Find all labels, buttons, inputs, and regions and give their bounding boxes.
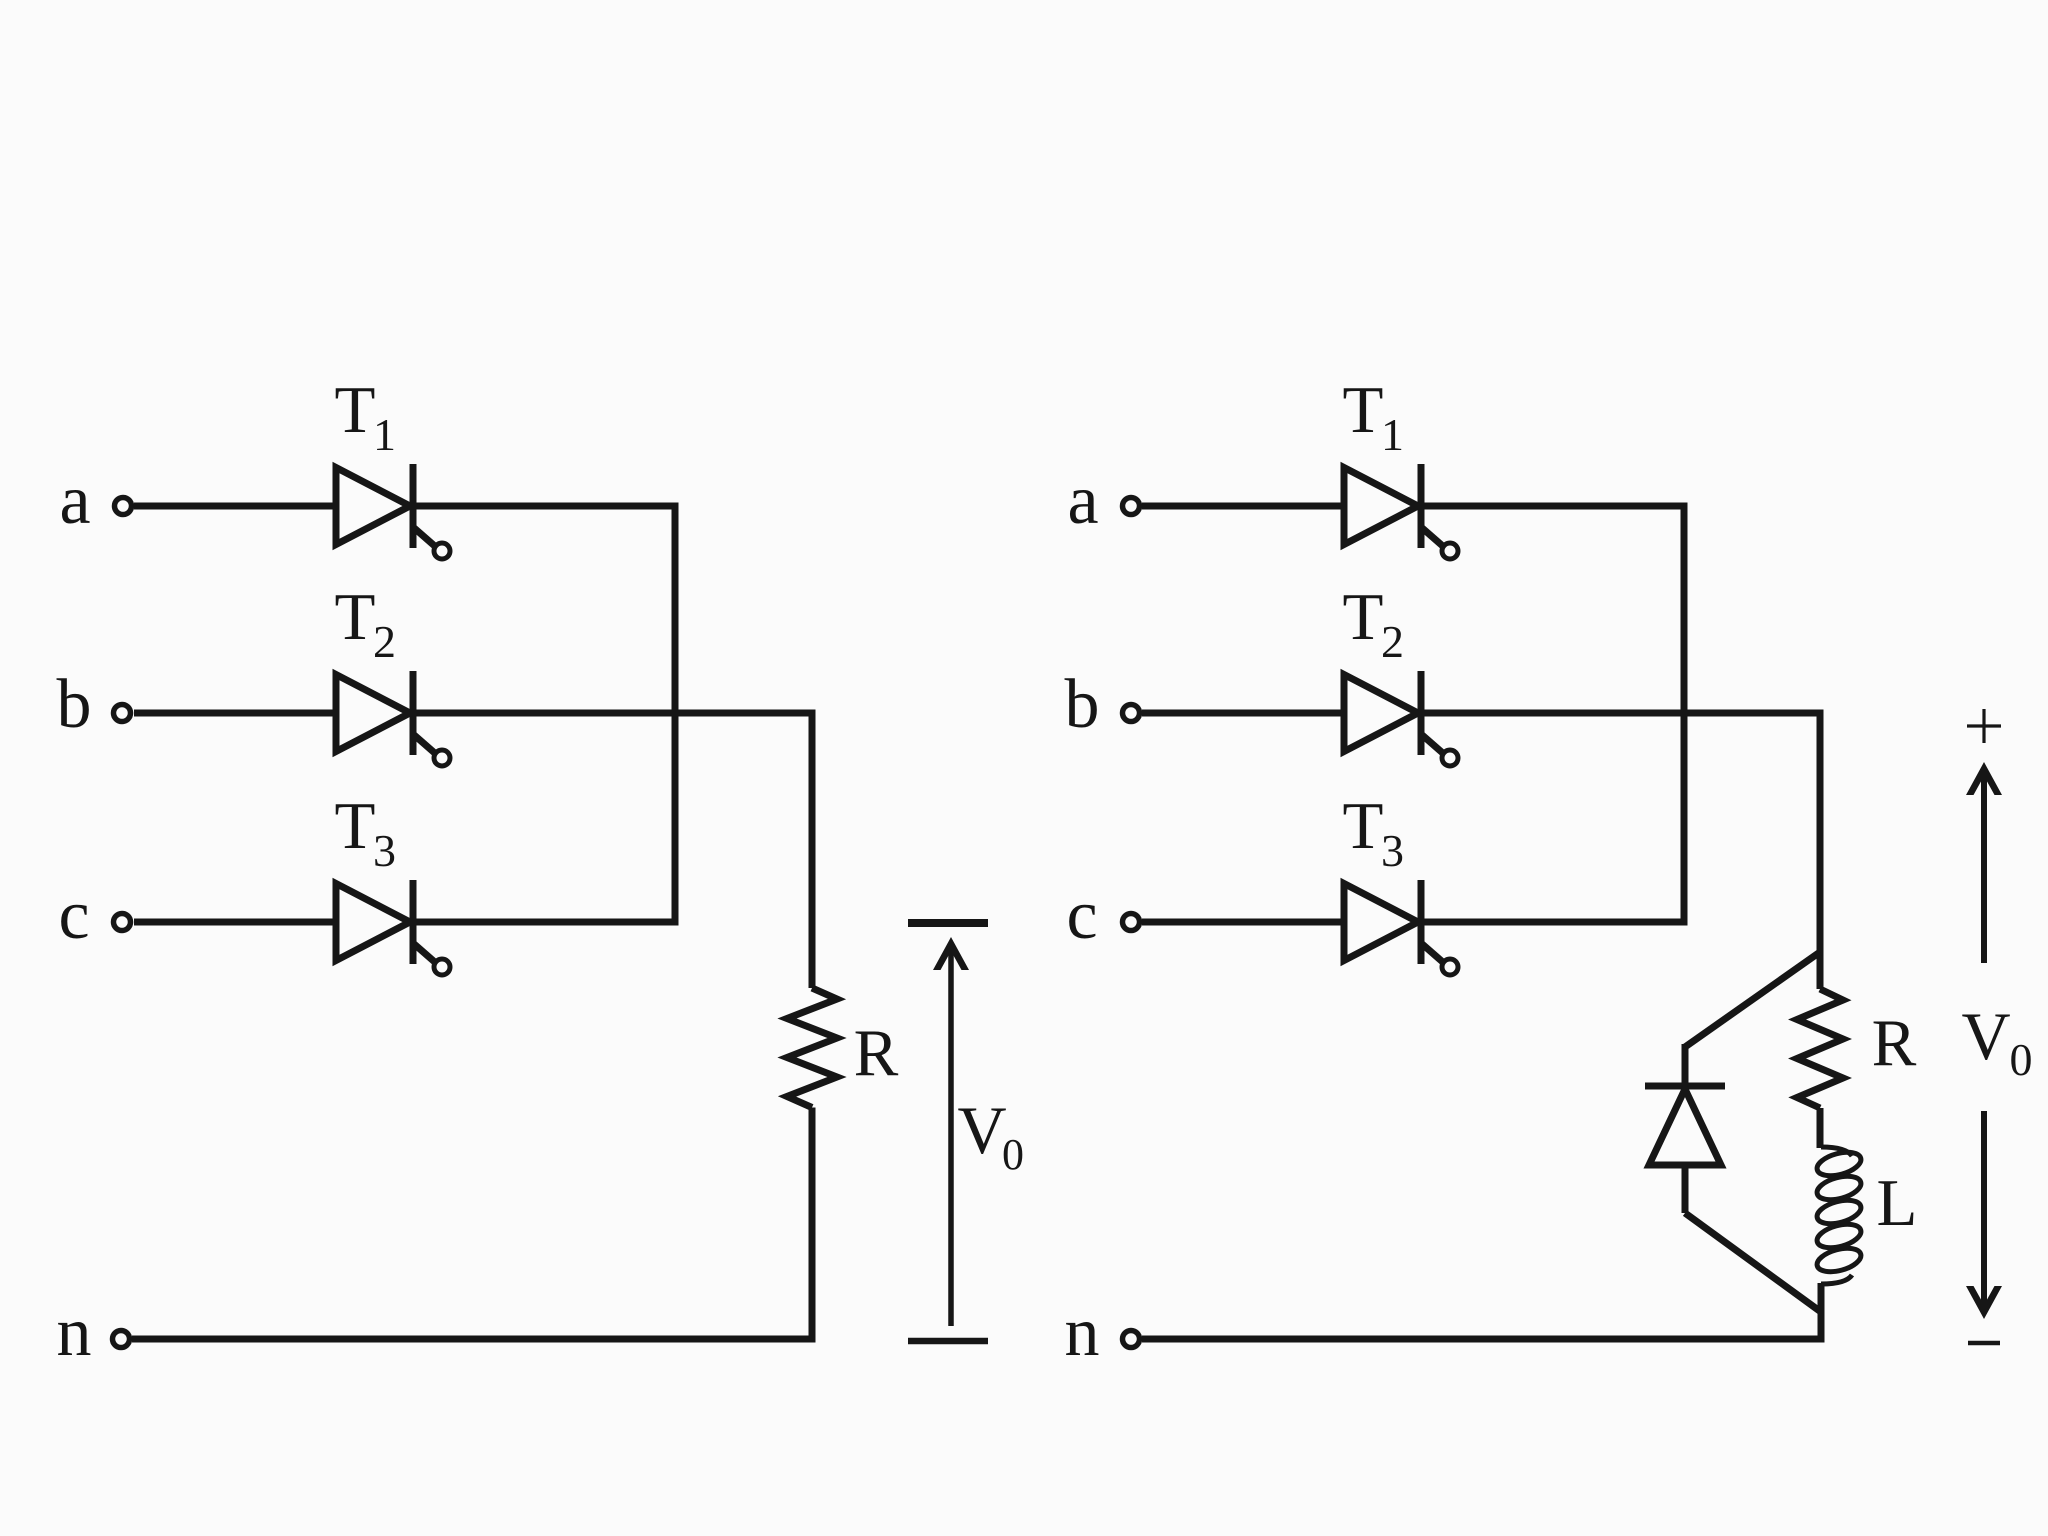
plus sign [1967, 709, 2001, 743]
node a (right terminal) [1123, 498, 1140, 515]
wire T2 to load branch [413, 710, 816, 717]
svg-text:R: R [1872, 1006, 1917, 1080]
svg-text:V: V [1961, 998, 2010, 1074]
label V0 (left) [957, 1092, 1024, 1179]
svg-text:1: 1 [1381, 409, 1404, 460]
node b (right terminal) [1123, 705, 1140, 722]
thyristor T3 [336, 880, 450, 975]
svg-text:a: a [59, 462, 90, 539]
wire L to n rail [1818, 1283, 1825, 1343]
svg-text:T: T [1343, 789, 1384, 863]
svg-text:V: V [957, 1092, 1006, 1168]
label V0 (right) [1961, 998, 2032, 1085]
node a (left terminal) [115, 498, 132, 515]
wire cathode bus (left) [672, 503, 679, 926]
svg-text:n: n [1065, 1294, 1100, 1371]
svg-text:3: 3 [373, 825, 396, 876]
minus sign [1968, 1341, 2000, 1346]
svg-text:2: 2 [373, 616, 396, 667]
wire a to T1 [134, 503, 337, 510]
V0 down arrow (right) [1966, 1111, 2002, 1319]
thyristor T1 [336, 464, 450, 559]
label T2 (right) [1343, 580, 1404, 667]
wire cathode bus (right) [1681, 503, 1688, 926]
inductor L [1815, 1147, 1864, 1284]
svg-text:c: c [58, 877, 89, 954]
label T1 (right) [1343, 373, 1404, 460]
label T3 (right) [1343, 789, 1404, 876]
thyristor T2 [336, 671, 450, 766]
svg-text:b: b [1065, 666, 1100, 743]
label T1 [335, 373, 396, 460]
wire b to T2 (right) [1142, 710, 1345, 717]
svg-text:a: a [1067, 462, 1098, 539]
svg-text:T: T [1343, 580, 1384, 654]
svg-text:T: T [335, 373, 376, 447]
svg-text:0: 0 [2010, 1034, 2033, 1085]
svg-text:b: b [57, 666, 92, 743]
wire T3 to bus (right) [1421, 919, 1688, 926]
V0 up arrow (right) [1966, 762, 2002, 963]
node c (left terminal) [114, 914, 131, 931]
label T3 [335, 789, 396, 876]
svg-text:T: T [335, 580, 376, 654]
thyristor T2 (right) [1344, 671, 1458, 766]
wire b to T2 [134, 710, 337, 717]
svg-text:T: T [1343, 373, 1384, 447]
wire T2 to load branch (right) [1421, 710, 1824, 717]
node c (right terminal) [1123, 914, 1140, 931]
resistor R (right) [1797, 989, 1843, 1108]
wire diode bottom diagonal [1685, 1213, 1821, 1312]
wire diode top diagonal [1685, 952, 1820, 1047]
svg-text:R: R [854, 1016, 899, 1090]
wire diode bottom lead [1682, 1165, 1689, 1213]
thyristor T1 (right) [1344, 464, 1458, 559]
wire a to T1 (right) [1142, 503, 1345, 510]
diode D (freewheeling) [1645, 1086, 1725, 1165]
wire T1 to bus [413, 503, 679, 510]
wire c to T3 [134, 919, 337, 926]
node n (right terminal) [1123, 1331, 1140, 1348]
svg-text:1: 1 [373, 409, 396, 460]
node b (left terminal) [114, 705, 131, 722]
wire n rail (left) [132, 1336, 816, 1343]
V0 arrow (left) [933, 937, 969, 1326]
wire c to T3 (right) [1142, 919, 1345, 926]
svg-text:L: L [1877, 1166, 1918, 1240]
svg-text:0: 0 [1002, 1130, 1024, 1179]
wire R to L [1817, 1108, 1824, 1148]
V0 top bar (left) [908, 919, 988, 927]
wire n rail (right) [1142, 1336, 1825, 1343]
wire R to n rail [809, 1108, 816, 1343]
svg-text:T: T [335, 789, 376, 863]
thyristor T3 (right) [1344, 880, 1458, 975]
resistor R (left) [787, 988, 837, 1108]
node n (left terminal) [113, 1331, 130, 1348]
label T2 [335, 580, 396, 667]
svg-text:c: c [1066, 877, 1097, 954]
svg-text:2: 2 [1381, 616, 1404, 667]
wire load branch down (right) [1817, 710, 1824, 990]
V0 bottom bar (left) [908, 1338, 988, 1345]
wire b-branch down to R [809, 710, 816, 989]
wire diode top lead [1682, 1044, 1689, 1086]
svg-text:3: 3 [1381, 825, 1404, 876]
wire T3 to bus [413, 919, 679, 926]
svg-text:n: n [57, 1294, 92, 1371]
wire T1 to bus (right) [1421, 503, 1688, 510]
